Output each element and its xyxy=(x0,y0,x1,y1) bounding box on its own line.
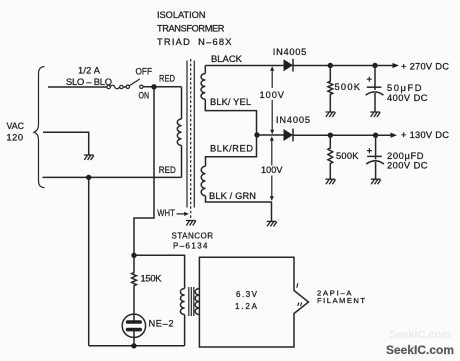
wire primary top lead xyxy=(181,87,183,119)
winding T1 secondary B xyxy=(201,166,205,196)
svg-text:6.3V: 6.3V xyxy=(236,290,258,299)
svg-text:ON: ON xyxy=(139,91,150,101)
resistor R1 150K xyxy=(132,255,137,322)
svg-text:SLO – BLO: SLO – BLO xyxy=(66,77,112,87)
svg-text:500K: 500K xyxy=(336,151,359,161)
node VAC 120 source brace xyxy=(34,67,45,188)
diode D1 IN4005 xyxy=(284,59,294,72)
svg-text:100V: 100V xyxy=(261,165,283,175)
wire secondary A top lead BLACK xyxy=(204,66,206,74)
diode D2 IN4005 xyxy=(284,129,294,142)
svg-text:400V DC: 400V DC xyxy=(387,93,428,103)
fuse F1 1/2A SLO-BLO xyxy=(107,85,123,89)
switch S1 OFF/ON xyxy=(126,79,143,89)
svg-text:ISOLATION: ISOLATION xyxy=(157,10,206,20)
wire BLK/GRN lead xyxy=(206,196,272,221)
svg-text:1/2 A: 1/2 A xyxy=(78,66,101,76)
ground BLK/GRN xyxy=(267,221,277,226)
pin mark 1 xyxy=(297,283,298,287)
svg-text:BLACK: BLACK xyxy=(211,54,243,64)
svg-text:NE–2: NE–2 xyxy=(149,319,174,329)
label isolation transformer T1 xyxy=(157,10,232,47)
arrow +270V output xyxy=(393,63,400,68)
wire primary bottom lead xyxy=(181,145,183,177)
svg-text:+ 270V DC: + 270V DC xyxy=(401,62,449,72)
ground C2 xyxy=(371,179,381,184)
resistor R3 500K xyxy=(328,135,333,179)
svg-text:BLK / GRN: BLK / GRN xyxy=(209,191,256,201)
svg-text:150K: 150K xyxy=(141,274,163,284)
wire neutral down left side xyxy=(88,177,90,345)
ground VAC center tap xyxy=(84,155,94,160)
wire to Stancor primary xyxy=(134,255,185,288)
wire switched hot down to indicator branch xyxy=(134,87,154,256)
lamp NE-2 neon xyxy=(122,314,145,337)
svg-text:100V: 100V xyxy=(260,90,285,100)
wire VAC center tap xyxy=(43,132,89,154)
svg-text:1.2A: 1.2A xyxy=(235,302,258,311)
svg-text:IN4005: IN4005 xyxy=(276,115,310,125)
svg-text:SeekIC.com: SeekIC.com xyxy=(386,345,454,357)
winding T1 primary xyxy=(177,119,181,145)
svg-text:SeekIC.com: SeekIC.com xyxy=(389,329,451,341)
svg-text:200V DC: 200V DC xyxy=(387,161,428,171)
node junction C1 xyxy=(372,63,377,68)
winding T2 primary xyxy=(180,289,184,315)
node junction neutral xyxy=(86,175,91,180)
ground C1 xyxy=(370,112,380,117)
arrow +130V output xyxy=(391,133,398,138)
svg-text:TRIAD N–68X: TRIAD N–68X xyxy=(157,37,232,47)
core T2 laminations xyxy=(189,287,194,316)
wire mid rail to diode xyxy=(257,134,284,136)
box CRT filament load xyxy=(199,257,308,347)
svg-text:FILAMENT: FILAMENT xyxy=(317,296,365,305)
wire BLK/RED lead xyxy=(206,135,257,166)
svg-text:OFF: OFF xyxy=(136,67,153,77)
core T1 laminations xyxy=(187,61,194,208)
capacitor C2 200uFD 200V xyxy=(366,135,384,179)
svg-text:120: 120 xyxy=(7,133,24,143)
svg-text:200μFD: 200μFD xyxy=(387,151,424,161)
svg-text:+ 130V DC: + 130V DC xyxy=(401,130,449,140)
wire switch to primary top xyxy=(143,86,181,88)
svg-text:P–6134: P–6134 xyxy=(173,242,208,251)
wire T2 primary bottom lead xyxy=(184,315,186,346)
pin mark 11 xyxy=(298,302,302,306)
svg-text:WHT: WHT xyxy=(157,208,175,218)
wire VAC hot to fuse xyxy=(48,86,107,88)
winding T1 secondary A xyxy=(201,74,205,100)
svg-text:BLK/ YEL: BLK/ YEL xyxy=(210,97,251,107)
wire +270V rail xyxy=(293,65,393,67)
wire NE-2 bottom lead xyxy=(133,330,135,346)
wire bottom rail xyxy=(89,345,185,347)
svg-text:STANCOR: STANCOR xyxy=(172,232,214,241)
ground shield xyxy=(186,221,196,226)
node junction BLK/YEL BLK/RED xyxy=(254,132,259,137)
resistor R2 500K xyxy=(328,66,333,112)
core T1 shield dashed xyxy=(190,59,192,219)
wire BLK/YEL lead xyxy=(205,99,256,135)
capacitor C1 50uFD 400V xyxy=(366,66,384,112)
svg-text:RED: RED xyxy=(159,165,176,175)
svg-text:500K: 500K xyxy=(335,82,361,92)
node junction R3 xyxy=(328,133,333,138)
node junction switched hot xyxy=(151,84,156,89)
winding T2 secondary xyxy=(195,289,199,315)
wire +130V rail xyxy=(293,134,391,136)
svg-text:TRANSFORMER: TRANSFORMER xyxy=(157,24,225,34)
node junction indicator branch xyxy=(131,253,136,258)
svg-text:VAC: VAC xyxy=(7,121,25,131)
measure 100V lower xyxy=(261,136,283,201)
wire fuse to switch xyxy=(123,86,126,88)
svg-text:RED: RED xyxy=(159,74,175,84)
node junction R2 xyxy=(328,63,333,68)
svg-text:BLK/RED: BLK/RED xyxy=(210,144,253,154)
node NE-2 bottom junction xyxy=(131,343,136,348)
ground R3 xyxy=(326,179,336,184)
wire top rail to diode xyxy=(205,65,283,67)
wire VAC neutral xyxy=(43,176,182,178)
measure 100V upper xyxy=(260,66,285,134)
ground R2 xyxy=(326,112,336,117)
svg-text:IN4005: IN4005 xyxy=(273,47,307,57)
node junction C2 xyxy=(373,133,378,138)
